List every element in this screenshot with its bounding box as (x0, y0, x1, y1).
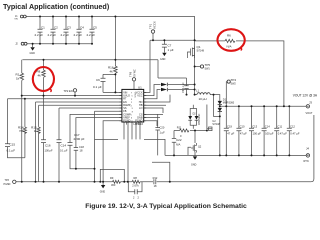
svg-text:GND: GND (100, 191, 106, 194)
svg-text:PGND: PGND (135, 120, 142, 123)
svg-text:2.67k: 2.67k (132, 184, 139, 188)
svg-text:C2: C2 (54, 26, 58, 30)
svg-text:GND: GND (30, 52, 36, 55)
svg-text:C4: C4 (80, 26, 84, 30)
svg-text:SW2: SW2 (231, 83, 237, 86)
svg-text:100 µF: 100 µF (253, 132, 262, 136)
svg-text:100 pF: 100 pF (45, 149, 53, 153)
svg-text:C20: C20 (160, 126, 165, 130)
svg-text:R9: R9 (110, 176, 114, 180)
svg-text:Figure 19. 12-V, 3-A Typical: Figure 19. 12-V, 3-A Typical Application… (85, 203, 247, 210)
svg-text:Si7148: Si7148 (212, 123, 220, 126)
svg-text:1 µF: 1 µF (168, 48, 174, 52)
svg-text:TP3: TP3 (5, 179, 10, 182)
svg-text:C15: C15 (10, 143, 16, 147)
svg-text:47 µF: 47 µF (227, 132, 234, 136)
svg-text:C1: C1 (41, 26, 45, 30)
svg-text:Typical Application (continue: Typical Application (continued) (3, 2, 110, 11)
svg-text:C14: C14 (265, 124, 270, 128)
svg-text:2.2 µF: 2.2 µF (61, 33, 70, 37)
svg-text:2.2 µF: 2.2 µF (74, 33, 83, 37)
svg-text:0.1 µF: 0.1 µF (7, 149, 16, 153)
svg-text:PGND: PGND (4, 183, 11, 186)
svg-text:1k: 1k (16, 77, 20, 81)
svg-text:Q1: Q1 (197, 45, 201, 49)
svg-text:R12: R12 (153, 176, 158, 180)
svg-text:768: 768 (19, 129, 24, 133)
svg-text:4k: 4k (38, 74, 42, 78)
svg-text:10 µH: 10 µH (199, 97, 207, 101)
svg-text:C22: C22 (176, 138, 182, 142)
svg-text:LO: LO (139, 107, 142, 110)
svg-text:VCC: VCC (137, 95, 142, 98)
svg-text:C13: C13 (252, 124, 257, 128)
svg-text:0.1 µF: 0.1 µF (93, 85, 102, 89)
svg-text:MBRS360: MBRS360 (223, 102, 235, 105)
svg-text:5: 5 (132, 96, 133, 98)
svg-text:C19: C19 (227, 124, 232, 128)
svg-text:0.1 µF: 0.1 µF (60, 149, 68, 153)
svg-text:C10: C10 (240, 124, 245, 128)
svg-text:9: 9 (131, 99, 132, 101)
svg-text:VOUT 12V @ 3A: VOUT 12V @ 3A (293, 94, 318, 98)
svg-text:4k: 4k (110, 70, 114, 74)
svg-text:6: 6 (131, 118, 132, 120)
svg-text:3: 3 (132, 108, 133, 110)
svg-text:4: 4 (131, 105, 132, 107)
svg-text:VOUT: VOUT (306, 112, 313, 115)
svg-text:SW1: SW1 (205, 68, 211, 71)
svg-text:J4: J4 (306, 146, 309, 150)
svg-text:J3: J3 (309, 101, 312, 105)
svg-text:300: 300 (111, 183, 116, 187)
svg-text:C11: C11 (277, 124, 282, 128)
svg-text:RTN: RTN (304, 160, 309, 163)
svg-text:C16: C16 (45, 144, 51, 148)
svg-text:100 µF: 100 µF (265, 132, 274, 136)
svg-text:C14: C14 (61, 144, 67, 148)
svg-text:R8: R8 (134, 176, 138, 180)
svg-text:R6: R6 (227, 34, 231, 38)
svg-text:C3: C3 (67, 26, 71, 30)
svg-text:0.47 µF: 0.47 µF (278, 132, 288, 136)
svg-text:1: 1 (131, 115, 132, 117)
svg-text:8: 8 (132, 111, 133, 113)
svg-text:PGND: PGND (123, 120, 130, 123)
svg-text:MBRS05C: MBRS05C (198, 113, 201, 125)
svg-text:C18: C18 (79, 145, 84, 149)
svg-text:C6: C6 (96, 78, 100, 82)
svg-text:C12: C12 (290, 124, 295, 128)
svg-text:0.47 µF: 0.47 µF (290, 132, 300, 136)
svg-text:VCCX: VCCX (153, 21, 157, 29)
svg-text:R11: R11 (177, 126, 182, 130)
svg-text:2200 pF: 2200 pF (74, 137, 85, 141)
svg-text:GND: GND (191, 164, 197, 167)
svg-text:C7: C7 (168, 44, 172, 48)
svg-text:N/A: N/A (176, 143, 181, 147)
svg-text:47 µF: 47 µF (240, 132, 247, 136)
svg-text:2.2 µF: 2.2 µF (48, 33, 57, 37)
svg-text:C9 0.1 µF: C9 0.1 µF (182, 82, 185, 93)
svg-text:1 µF: 1 µF (160, 131, 166, 135)
svg-text:TP2 EN: TP2 EN (64, 89, 73, 93)
svg-text:Si7148: Si7148 (197, 50, 205, 53)
svg-text:N/A: N/A (227, 45, 232, 49)
svg-text:VIN: VIN (14, 19, 18, 21)
svg-text:7: 7 (131, 93, 132, 95)
svg-text:GND: GND (160, 58, 166, 61)
svg-text:TP4: TP4 (231, 78, 237, 82)
svg-text:2.2 µF: 2.2 µF (87, 33, 96, 37)
svg-text:SYNC: SYNC (133, 69, 137, 77)
svg-text:C5: C5 (93, 26, 97, 30)
svg-text:2.2 µF: 2.2 µF (35, 33, 44, 37)
svg-text:TP5: TP5 (205, 63, 211, 67)
svg-text:2: 2 (131, 102, 132, 104)
svg-text:11: 11 (131, 121, 133, 123)
svg-text:U1: U1 (138, 86, 142, 90)
